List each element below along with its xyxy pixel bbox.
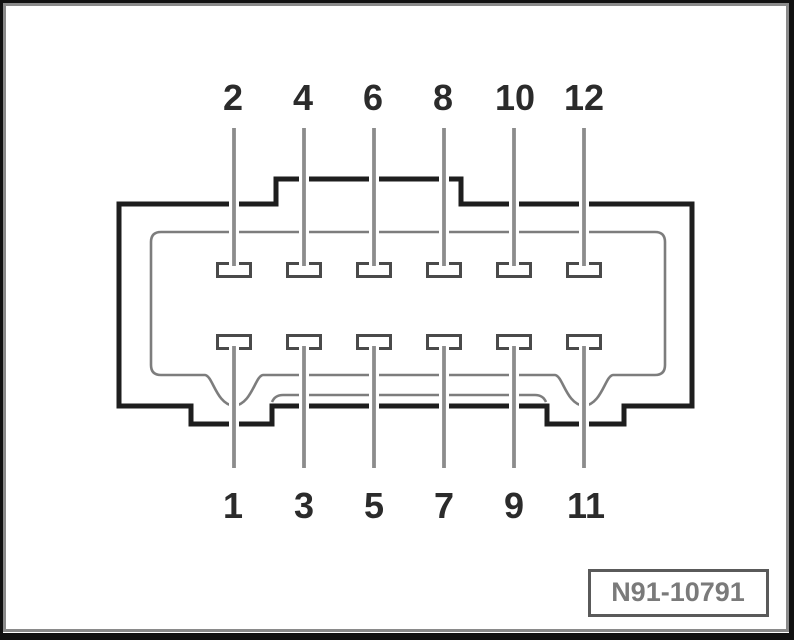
svg-text:9: 9 [504, 485, 524, 526]
svg-text:10: 10 [495, 77, 535, 118]
figure number box [590, 571, 768, 616]
leader pin 9 [512, 346, 516, 468]
svg-text:N91-10791: N91-10791 [611, 577, 745, 607]
leader lines gray [234, 128, 584, 468]
leader pin 12 [582, 128, 586, 266]
connector outer housing contour [119, 179, 692, 424]
pin 12 terminal [568, 264, 601, 277]
leader pin 8 [442, 128, 446, 266]
pin terminal rectangles bottom row (1,3,5,7,9,11) [218, 336, 601, 349]
pin 1 terminal [218, 336, 251, 349]
pin 3 terminal [288, 336, 321, 349]
pin 5 terminal [358, 336, 391, 349]
svg-text:3: 3 [294, 485, 314, 526]
pin terminal rectangles top row (2,4,6,8,10,12) [218, 264, 601, 277]
leader pin 1 [232, 346, 236, 468]
svg-text:7: 7 [434, 485, 454, 526]
top pin number labels [223, 77, 604, 118]
leader pin 10 [512, 128, 516, 266]
pin 8 terminal [428, 264, 461, 277]
svg-text:5: 5 [364, 485, 384, 526]
leader pin 7 [442, 346, 446, 468]
svg-text:4: 4 [293, 77, 313, 118]
connector inner contour [151, 232, 665, 406]
inner ledge line between bottom tabs [272, 395, 546, 402]
svg-text:1: 1 [223, 485, 243, 526]
svg-text:2: 2 [223, 77, 243, 118]
pin 2 terminal [218, 264, 251, 277]
pin 4 terminal [288, 264, 321, 277]
pin 9 terminal [498, 336, 531, 349]
leader pin 3 [302, 346, 306, 468]
svg-text:12: 12 [564, 77, 604, 118]
bottom pin number labels [223, 485, 605, 526]
pin 11 terminal [568, 336, 601, 349]
leader pin 2 [232, 128, 236, 266]
svg-text:8: 8 [433, 77, 453, 118]
svg-text:11: 11 [567, 485, 605, 526]
leader line white casings [234, 128, 584, 468]
leader pin 5 [372, 346, 376, 468]
leader pin 6 [372, 128, 376, 266]
pin 7 terminal [428, 336, 461, 349]
leader pin 11 [582, 346, 586, 468]
pin 10 terminal [498, 264, 531, 277]
leader pin 4 [302, 128, 306, 266]
svg-text:6: 6 [363, 77, 383, 118]
pin 6 terminal [358, 264, 391, 277]
